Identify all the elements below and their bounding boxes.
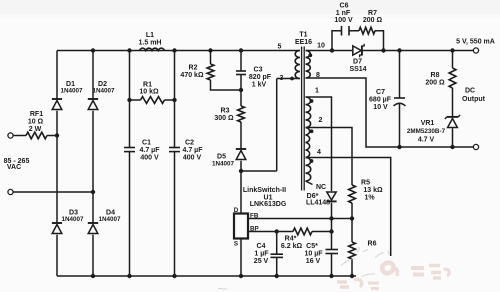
wire D1/D3 column bbox=[56, 51, 58, 277]
node R1 right bbox=[172, 98, 176, 102]
svg-text:VAC: VAC bbox=[7, 164, 21, 171]
background top band bbox=[0, 0, 500, 14]
svg-text:C3: C3 bbox=[254, 67, 263, 74]
svg-text:5: 5 bbox=[278, 44, 282, 51]
phase dot bias winding pin1 bbox=[310, 99, 314, 103]
svg-text:1N4007: 1N4007 bbox=[60, 88, 83, 95]
node top rail at C3 bbox=[239, 48, 243, 52]
transformer T1 bias winding pin4-NC bbox=[306, 158, 311, 182]
watermark gray-pink glyph blobs bbox=[337, 263, 449, 289]
svg-text:400 V: 400 V bbox=[183, 155, 202, 162]
transformer T1 bias winding pins 1-2 bbox=[306, 97, 311, 128]
resistor R3 300ohm bbox=[238, 106, 245, 122]
svg-text:C4: C4 bbox=[257, 243, 266, 250]
node BP / C4 / R4 junction bbox=[275, 229, 279, 233]
wire bottom primary return rail bbox=[57, 275, 356, 277]
svg-text:DC: DC bbox=[465, 88, 475, 95]
node top rail at R2 bbox=[208, 48, 212, 52]
svg-text:C5*: C5* bbox=[306, 243, 318, 250]
svg-text:LinkSwitch-II: LinkSwitch-II bbox=[243, 187, 286, 194]
svg-text:3: 3 bbox=[280, 75, 284, 82]
svg-text:SS14: SS14 bbox=[349, 66, 366, 73]
node top rail at C1 bbox=[127, 48, 131, 52]
wire U1 source to return rail bbox=[240, 239, 242, 277]
wire C7 column bbox=[399, 51, 401, 148]
node top rail at D2 bbox=[91, 48, 95, 52]
svg-text:10 V: 10 V bbox=[373, 104, 388, 111]
transformer T1 bias winding pins 2-4 bbox=[306, 128, 310, 158]
svg-text:13 kΩ: 13 kΩ bbox=[363, 187, 383, 194]
svg-text:4.7 µF: 4.7 µF bbox=[140, 147, 161, 154]
node bottom rail at C5 bbox=[329, 274, 333, 278]
svg-text:1N4007: 1N4007 bbox=[98, 216, 121, 223]
wire pin4 stub bbox=[306, 158, 391, 257]
svg-text:2MM5230B-7: 2MM5230B-7 bbox=[407, 128, 446, 135]
svg-text:R6: R6 bbox=[368, 241, 377, 248]
node bottom rail at U1 source bbox=[239, 274, 243, 278]
svg-text:C2: C2 bbox=[185, 140, 194, 147]
node AC input / D2-D4 junction bbox=[91, 190, 95, 194]
wire R8/VR1 column bbox=[452, 51, 454, 148]
svg-text:1 kV: 1 kV bbox=[252, 82, 267, 89]
svg-text:T1: T1 bbox=[299, 32, 307, 39]
resistor RF1 10ohm 2W fusible bbox=[26, 132, 47, 139]
svg-text:1N4007: 1N4007 bbox=[92, 88, 115, 95]
resistor R1 10k bbox=[141, 97, 165, 104]
svg-text:L1: L1 bbox=[146, 32, 154, 39]
wire bias winding NC tail bbox=[306, 181, 313, 185]
wire C1 column bbox=[129, 51, 131, 277]
svg-text:100 V: 100 V bbox=[334, 17, 353, 24]
diode D3 1N4007 bbox=[52, 223, 62, 234]
svg-text:D7: D7 bbox=[353, 59, 362, 66]
svg-text:R8: R8 bbox=[431, 72, 440, 79]
svg-text:LL4148: LL4148 bbox=[306, 200, 330, 207]
capacitor C7 680uF 10V polarized bbox=[394, 98, 406, 106]
node R2/C3/R3 junction bbox=[239, 88, 243, 92]
svg-text:470 kΩ: 470 kΩ bbox=[180, 72, 204, 79]
svg-text:D5: D5 bbox=[217, 154, 226, 161]
wire top rail (rectified HV bus) bbox=[57, 50, 300, 52]
svg-text:300 Ω: 300 Ω bbox=[214, 115, 234, 122]
svg-text:2 W: 2 W bbox=[29, 126, 42, 133]
wire BP line and R4 leads bbox=[248, 231, 332, 233]
svg-text:5 V, 550 mA: 5 V, 550 mA bbox=[456, 39, 495, 46]
svg-text:R7: R7 bbox=[368, 10, 377, 17]
wire D6 cathode / C5 column bbox=[331, 203, 333, 276]
svg-text:2: 2 bbox=[319, 117, 323, 124]
svg-text:FB: FB bbox=[250, 213, 259, 220]
svg-text:10 µF: 10 µF bbox=[304, 251, 323, 258]
svg-text:LNK613DG: LNK613DG bbox=[250, 201, 287, 208]
terminal AC neutral input bbox=[8, 189, 13, 194]
svg-text:S: S bbox=[234, 241, 238, 248]
svg-text:BP: BP bbox=[250, 226, 259, 233]
node R4 / C5 junction bbox=[329, 229, 333, 233]
capacitor C3 820pF 1kV bbox=[236, 71, 246, 75]
node bottom rail at C2 bbox=[172, 274, 176, 278]
transformer T1 primary winding pins 5-3 bbox=[295, 51, 300, 79]
resistor R5 13k 1% bbox=[349, 185, 356, 203]
svg-text:10 Ω: 10 Ω bbox=[28, 119, 44, 126]
svg-text:4.7 µF: 4.7 µF bbox=[183, 147, 204, 154]
wire R1 leads bbox=[130, 99, 175, 101]
wire D2/D4 column bbox=[92, 51, 94, 277]
phase dot primary pin3 bbox=[290, 77, 294, 81]
svg-text:400 V: 400 V bbox=[140, 155, 159, 162]
resistor R2 470k bbox=[207, 64, 214, 80]
svg-text:1 nF: 1 nF bbox=[336, 10, 351, 17]
svg-text:4: 4 bbox=[317, 149, 321, 156]
node pin10 / snubber left bbox=[330, 48, 334, 52]
wire C4 column bbox=[276, 232, 278, 277]
svg-text:R2: R2 bbox=[189, 65, 198, 72]
wire pin3 to drain node bbox=[241, 79, 300, 172]
capacitor C1 4.7uF 400V bbox=[124, 148, 135, 152]
phase dot bias winding pin4 bbox=[310, 159, 314, 163]
node RF1 / D1-D3 junction bbox=[55, 133, 59, 137]
svg-text:R1: R1 bbox=[143, 82, 152, 89]
capacitor C2 4.7uF 400V bbox=[169, 148, 180, 152]
node snubber right / D7 cathode bbox=[381, 48, 385, 52]
wire pin1 to D6 anode bbox=[306, 97, 332, 191]
wire C3/R3/D5/drain column bbox=[240, 51, 242, 214]
node C7 bottom bbox=[397, 145, 401, 149]
node R1 left bbox=[127, 98, 131, 102]
terminal DC output positive bbox=[473, 48, 478, 53]
svg-text:1.5 mH: 1.5 mH bbox=[139, 40, 162, 47]
svg-text:C1: C1 bbox=[142, 140, 151, 147]
phase dot bias winding pin2 bbox=[310, 129, 314, 133]
wire R5-R6 column bbox=[351, 203, 353, 276]
node R8 top bbox=[450, 48, 454, 52]
svg-text:25 V: 25 V bbox=[254, 258, 269, 265]
capacitor C5 10uF 16V bbox=[326, 250, 339, 254]
transformer T1 EE16 core bbox=[302, 47, 305, 191]
svg-text:200 Ω: 200 Ω bbox=[363, 17, 383, 24]
svg-text:1N4007: 1N4007 bbox=[212, 161, 235, 168]
node bottom rail at C1 bbox=[127, 274, 131, 278]
resistor R4 6.2k bbox=[293, 228, 312, 235]
phase dot secondary pin10 bbox=[308, 53, 312, 57]
transformer T1 secondary winding pins 10-8 bbox=[306, 51, 311, 79]
svg-text:R5: R5 bbox=[361, 180, 370, 187]
diode D1 1N4007 bbox=[52, 99, 62, 110]
svg-text:1: 1 bbox=[315, 88, 319, 95]
wire 5V output rail bbox=[306, 50, 477, 52]
resistor R6 feedback lower divider bbox=[349, 242, 356, 259]
wire pin2 to R5 bbox=[306, 128, 353, 186]
terminal AC line input bbox=[8, 133, 13, 138]
svg-text:8: 8 bbox=[316, 72, 320, 79]
zener VR1 2MM5230B-7 4.7V bbox=[445, 115, 460, 128]
diode D6 LL4148 signal bbox=[326, 192, 336, 201]
svg-text:R4*: R4* bbox=[285, 236, 297, 243]
svg-text:RF1: RF1 bbox=[30, 111, 43, 118]
svg-text:6.2 kΩ: 6.2 kΩ bbox=[281, 243, 303, 250]
diode D2 1N4007 bbox=[88, 99, 98, 110]
wire pin8 secondary return bbox=[306, 78, 474, 147]
diode D4 1N4007 bbox=[88, 223, 98, 234]
wire RF1 leads bbox=[13, 135, 57, 137]
wire R2 leads and R2-C3 link bbox=[211, 51, 242, 91]
node VR1 bottom bbox=[450, 145, 454, 149]
svg-text:Output: Output bbox=[462, 96, 486, 103]
diode D7 SS14 schottky bbox=[353, 44, 364, 57]
node top rail at C2 bbox=[172, 48, 176, 52]
svg-text:C7: C7 bbox=[376, 89, 385, 96]
node D5 cathode / drain node bbox=[239, 169, 243, 173]
wire AC neutral input bbox=[13, 191, 93, 193]
wire FB feedback line bbox=[248, 218, 352, 220]
svg-text:VR1: VR1 bbox=[421, 120, 435, 127]
node FB divider R5/R6 junction bbox=[350, 216, 354, 220]
svg-text:10: 10 bbox=[317, 43, 325, 50]
svg-text:200 Ω: 200 Ω bbox=[425, 80, 445, 87]
capacitor C6 1nF 100V bbox=[342, 26, 350, 36]
wire C2 column bbox=[174, 51, 176, 277]
svg-text:D: D bbox=[234, 207, 239, 214]
watermark faint marks bbox=[218, 247, 389, 289]
diode D5 1N4007 bbox=[236, 149, 246, 160]
svg-text:1%: 1% bbox=[364, 195, 375, 202]
svg-text:C6: C6 bbox=[340, 3, 349, 10]
terminal DC output negative bbox=[473, 144, 478, 149]
svg-text:680 µF: 680 µF bbox=[369, 97, 392, 104]
svg-text:R3: R3 bbox=[221, 108, 230, 115]
node bottom rail at D4 bbox=[91, 274, 95, 278]
wire snubber loop C6-R7 bbox=[332, 31, 384, 51]
resistor R7 200ohm snubber bbox=[359, 27, 375, 34]
svg-text:10 kΩ: 10 kΩ bbox=[139, 89, 159, 96]
svg-text:16 V: 16 V bbox=[306, 258, 321, 265]
node D6 cathode / FB junction bbox=[329, 216, 333, 220]
svg-text:1 µF: 1 µF bbox=[254, 251, 269, 258]
resistor R8 200ohm preload bbox=[449, 68, 456, 88]
svg-text:820 pF: 820 pF bbox=[249, 74, 272, 81]
node bottom rail at R6 bbox=[350, 274, 354, 278]
capacitor C4 1uF 25V bbox=[271, 254, 284, 257]
op-amp U1 LNK613DG body bbox=[234, 214, 248, 239]
node bottom rail at C4 bbox=[275, 274, 279, 278]
svg-text:1N4007: 1N4007 bbox=[61, 216, 84, 223]
inductor L1 1.5mH bbox=[140, 48, 165, 50]
svg-text:EE16: EE16 bbox=[295, 39, 312, 46]
node C7 top bbox=[397, 48, 401, 52]
svg-text:NC: NC bbox=[316, 184, 326, 191]
svg-text:4.7 V: 4.7 V bbox=[418, 137, 435, 144]
